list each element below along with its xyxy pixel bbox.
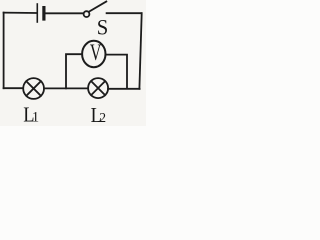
label L1 (23, 103, 39, 127)
wire voltmeter branch right (106, 55, 127, 89)
lamp L1 (23, 78, 44, 99)
label V (90, 40, 102, 66)
label L2 (91, 104, 106, 128)
wire between lamps (44, 87, 88, 89)
wire bottom-left segment (4, 87, 23, 89)
lamp L2 (88, 78, 108, 98)
wire top-left segment (4, 12, 36, 14)
svg-text:2: 2 (99, 110, 106, 125)
paper background (0, 0, 146, 126)
wire battery to switch (46, 12, 84, 14)
wire right vertical (139, 13, 141, 89)
wire left vertical (3, 13, 5, 89)
svg-text:V: V (90, 40, 102, 66)
switch S lever (open) (89, 2, 106, 12)
switch S pivot circle (84, 11, 90, 17)
battery long plate (36, 4, 38, 22)
wire switch to top-right corner (107, 12, 142, 14)
label S (97, 15, 109, 40)
battery short thick plate (42, 8, 45, 19)
wire bottom-right segment (108, 88, 140, 90)
svg-text:1: 1 (32, 110, 39, 126)
voltmeter circle (82, 41, 105, 67)
svg-text:S: S (97, 15, 109, 40)
wire voltmeter branch left (66, 54, 82, 88)
